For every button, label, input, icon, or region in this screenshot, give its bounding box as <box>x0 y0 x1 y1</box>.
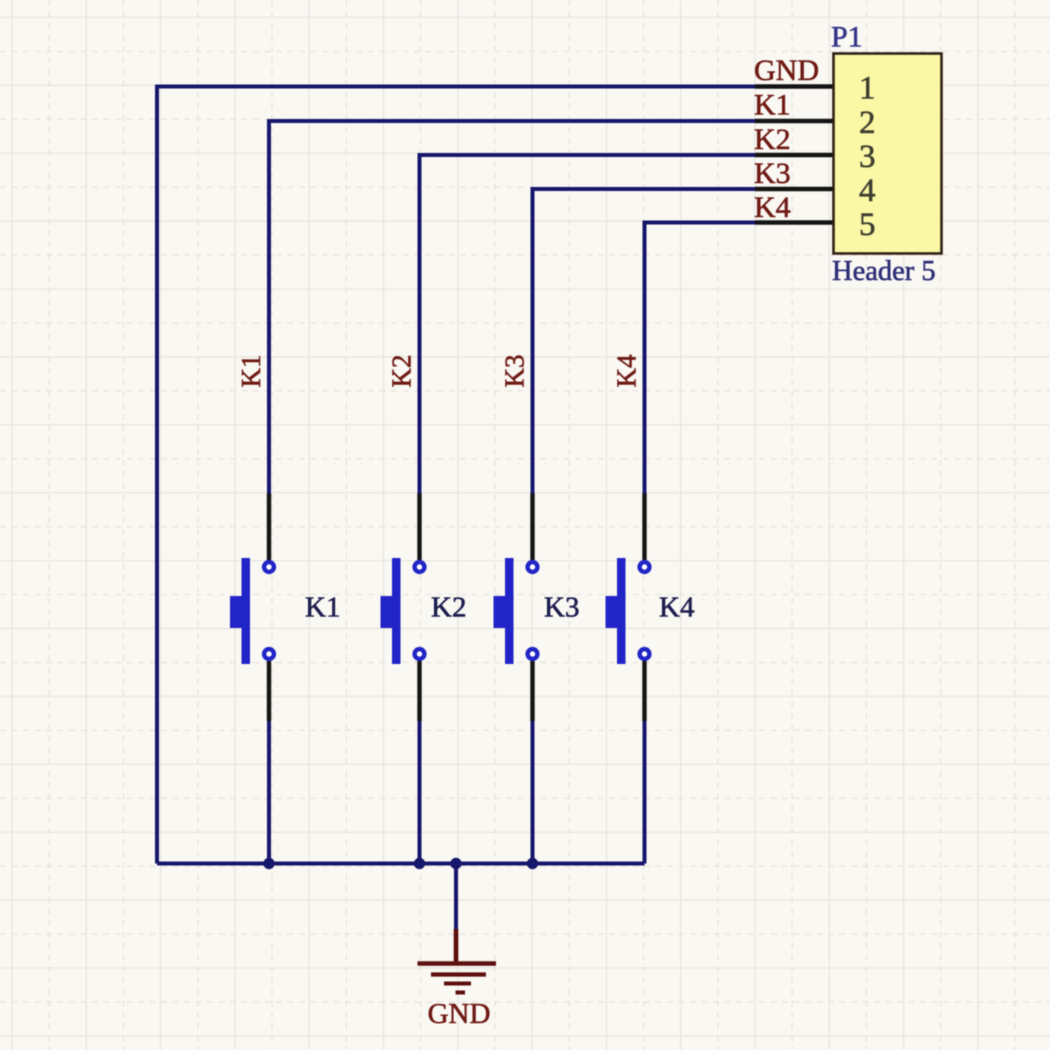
wire K4 button to bus <box>643 720 647 864</box>
pushbutton K2 actuator tab <box>381 596 393 628</box>
wire K3 net horizontal <box>533 187 758 191</box>
svg-text:K3: K3 <box>544 592 579 624</box>
svg-text:1: 1 <box>859 71 876 107</box>
pin number 2 <box>859 105 876 141</box>
junction GND tap/bus <box>450 858 461 869</box>
pin number 3 <box>859 139 876 175</box>
pushbutton K4 bottom terminal <box>640 649 650 659</box>
pushbutton K2 pin stub bottom <box>417 661 421 721</box>
value label Header 5 <box>832 256 936 287</box>
wire bottom bus <box>157 862 645 866</box>
wire K1 net horizontal <box>269 119 757 123</box>
pushbutton K1 bottom terminal <box>264 649 274 659</box>
header P1 pin 1 stub <box>755 84 834 88</box>
svg-text:GND: GND <box>428 998 491 1030</box>
svg-text:K1: K1 <box>236 355 266 388</box>
pushbutton K1 pin stub bottom <box>267 661 271 721</box>
net label K2 (rotated) <box>387 355 417 388</box>
net label K4 (top) <box>754 191 791 224</box>
pushbutton label K4 <box>659 592 695 624</box>
pushbutton K3 top terminal <box>528 562 538 572</box>
pin number 4 <box>859 173 876 209</box>
pushbutton K3 actuator bar <box>505 558 514 664</box>
svg-text:5: 5 <box>859 207 876 243</box>
svg-text:4: 4 <box>859 173 876 209</box>
net label K4 (rotated) <box>612 354 642 387</box>
header P1 pin 4 stub <box>755 187 834 191</box>
wire GND net: left vertical rail <box>155 85 159 864</box>
pin number 1 <box>859 71 876 107</box>
svg-text:3: 3 <box>859 139 876 175</box>
pushbutton K2 top terminal <box>415 562 425 572</box>
ground symbol bar 1 <box>418 961 497 966</box>
wire GND net: pin1 to left rail <box>157 85 757 89</box>
designator P1 <box>831 21 863 54</box>
pushbutton label K1 <box>305 592 340 624</box>
net label K2 (top) <box>754 123 791 156</box>
pin number 5 <box>859 207 876 243</box>
net label K1 (rotated) <box>236 355 266 388</box>
pushbutton K1 actuator bar <box>242 558 251 664</box>
wire K4 net horizontal <box>645 221 758 225</box>
connector U P1 body <box>834 54 942 254</box>
pushbutton K2 actuator bar <box>392 558 401 664</box>
svg-text:K1: K1 <box>754 89 791 122</box>
net label K3 (top) <box>754 157 791 190</box>
pushbutton K2 bottom terminal <box>415 649 425 659</box>
pushbutton label K3 <box>544 592 579 624</box>
pushbutton K4 actuator bar <box>617 558 626 664</box>
wire K1 net vertical <box>267 119 271 495</box>
net label GND (top) <box>754 54 819 87</box>
wire K2 net horizontal <box>420 153 758 157</box>
pushbutton K2 pin stub top <box>417 494 421 561</box>
header P1 pin 3 stub <box>755 153 834 157</box>
wire K3 button to bus <box>531 720 535 864</box>
pushbutton K3 pin stub bottom <box>530 661 534 721</box>
svg-text:K2: K2 <box>387 355 417 388</box>
pushbutton K1 top terminal <box>264 562 274 572</box>
ground symbol bar 2 <box>431 972 486 976</box>
pushbutton K4 pin stub top <box>642 494 646 561</box>
svg-text:K3: K3 <box>500 355 530 388</box>
header P1 pin 5 stub <box>755 220 834 224</box>
pushbutton K4 pin stub bottom <box>642 661 646 721</box>
svg-text:2: 2 <box>859 105 876 141</box>
pushbutton K3 pin stub top <box>530 494 534 561</box>
ground symbol bar 3 <box>444 982 471 986</box>
svg-text:P1: P1 <box>831 21 863 54</box>
net label K1 (top) <box>754 89 791 122</box>
header P1 pin 2 stub <box>755 119 834 123</box>
ground net label GND <box>428 998 491 1030</box>
svg-text:K3: K3 <box>754 157 791 190</box>
wire K2 button to bus <box>418 720 422 864</box>
wire GND tap to ground symbol <box>454 864 458 932</box>
pushbutton K1 actuator tab <box>230 596 242 628</box>
svg-text:Header 5: Header 5 <box>832 256 936 287</box>
pushbutton K3 bottom terminal <box>528 649 538 659</box>
wire K4 net vertical <box>643 221 647 496</box>
pushbutton K4 actuator tab <box>606 596 618 628</box>
junction K1/bus <box>263 858 274 869</box>
svg-text:K2: K2 <box>431 592 466 624</box>
pushbutton label K2 <box>431 592 466 624</box>
net label K3 (rotated) <box>500 355 530 388</box>
svg-text:GND: GND <box>754 54 819 87</box>
junction K3/bus <box>527 858 538 869</box>
ground symbol bar 4 <box>456 991 466 995</box>
svg-text:K4: K4 <box>612 354 642 387</box>
pushbutton K4 top terminal <box>640 562 650 572</box>
wire K1 button to bus <box>267 720 271 864</box>
junction K2/bus <box>414 858 425 869</box>
svg-text:K4: K4 <box>754 191 791 224</box>
svg-text:K1: K1 <box>305 592 340 624</box>
wire K3 net vertical <box>531 187 535 495</box>
svg-text:K2: K2 <box>754 123 791 156</box>
pushbutton K3 actuator tab <box>494 596 506 628</box>
ground symbol stem <box>454 929 459 962</box>
svg-text:K4: K4 <box>659 592 695 624</box>
wire K2 net vertical <box>418 153 422 495</box>
pushbutton K1 pin stub top <box>267 494 271 561</box>
